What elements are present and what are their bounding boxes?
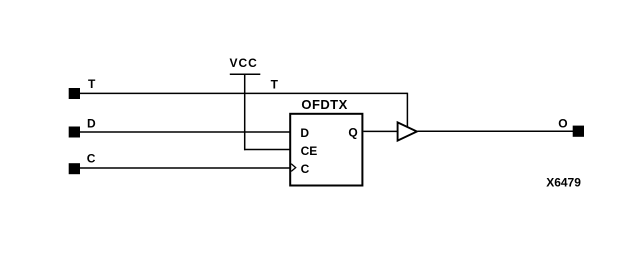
svg-text:D: D	[87, 116, 96, 130]
svg-text:CE: CE	[301, 144, 318, 158]
wire VCC stem	[244, 74, 246, 150]
wire T vertical to buffer	[406, 93, 408, 127]
flip-flop U1 OFDTX box	[290, 114, 362, 186]
svg-text:Q: Q	[348, 126, 357, 140]
wire D	[80, 131, 290, 133]
wire C	[80, 167, 290, 169]
clock chevron	[291, 164, 296, 172]
svg-text:D: D	[300, 126, 309, 140]
svg-text:T: T	[88, 77, 96, 91]
svg-text:OFDTX: OFDTX	[301, 97, 347, 112]
svg-text:O: O	[558, 117, 567, 131]
svg-text:C: C	[301, 162, 310, 176]
svg-text:VCC: VCC	[230, 56, 258, 70]
svg-text:T: T	[271, 77, 279, 91]
buffer (output tristate triangle)	[398, 122, 417, 140]
wire T horizontal	[80, 92, 407, 94]
input terminal D	[69, 127, 80, 138]
wire Q	[363, 130, 398, 132]
VCC bar	[230, 73, 260, 75]
svg-text:X6479: X6479	[546, 175, 581, 189]
input terminal T	[69, 88, 80, 99]
input terminal C	[69, 163, 80, 174]
wire CE	[244, 149, 290, 151]
wire output	[418, 130, 574, 132]
svg-text:C: C	[87, 152, 96, 166]
output terminal O	[573, 126, 584, 137]
